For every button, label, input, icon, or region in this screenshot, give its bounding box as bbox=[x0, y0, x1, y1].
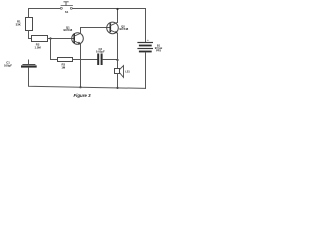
node speaker top bbox=[116, 59, 118, 61]
capacitor C1 bbox=[4, 60, 36, 67]
wire C2 to speaker node bbox=[103, 59, 118, 61]
svg-text:100µF: 100µF bbox=[4, 63, 12, 67]
wire R1 bottom to R2 corner bbox=[29, 31, 32, 39]
svg-text:LS1: LS1 bbox=[125, 71, 130, 74]
svg-text:33K: 33K bbox=[16, 23, 21, 27]
svg-text:BC548: BC548 bbox=[120, 27, 129, 31]
speaker LS1 bbox=[115, 60, 131, 88]
svg-text:BC548: BC548 bbox=[63, 28, 72, 32]
wire Q1 emitter to ground rail bbox=[80, 44, 82, 87]
node speaker ground junction bbox=[116, 87, 118, 89]
capacitor C2 bbox=[96, 47, 105, 64]
node emitter ground junction bbox=[79, 86, 81, 88]
svg-text:1M: 1M bbox=[61, 66, 66, 70]
node base junction bbox=[49, 37, 51, 39]
wire R2 to Q1 base bbox=[48, 38, 75, 40]
battery B1 bbox=[138, 38, 162, 52]
wire top rail left segment bbox=[29, 9, 61, 18]
resistor R2 bbox=[32, 36, 48, 50]
wire Q2 emitter down to speaker node bbox=[117, 33, 119, 60]
wire battery to bottom rail bbox=[145, 52, 147, 88]
wire bottom rail right segment bbox=[81, 87, 146, 88]
node collector rail junction bbox=[116, 8, 118, 10]
svg-text:0.05µF: 0.05µF bbox=[96, 50, 105, 54]
svg-text:Figure 3: Figure 3 bbox=[73, 93, 91, 98]
svg-text:1.5M: 1.5M bbox=[34, 45, 41, 49]
transistor Q1 bbox=[63, 25, 83, 44]
svg-text:S1: S1 bbox=[65, 10, 69, 14]
transistor Q2 bbox=[107, 22, 129, 34]
wire Q1 collector to Q2 base bbox=[81, 28, 111, 34]
switch S1 bbox=[60, 2, 72, 14]
wire top rail right segment bbox=[73, 9, 146, 43]
svg-text:PP3: PP3 bbox=[156, 49, 161, 52]
wire Q2 collector to top rail bbox=[117, 9, 119, 23]
wire junction down to R3 bbox=[51, 39, 58, 60]
resistor R1 bbox=[16, 18, 33, 31]
resistor R3 bbox=[58, 58, 73, 70]
wire R3 to C2 (crosses emitter wire, no join) bbox=[73, 59, 98, 61]
wire C1 to bottom rail corner bbox=[29, 68, 81, 88]
